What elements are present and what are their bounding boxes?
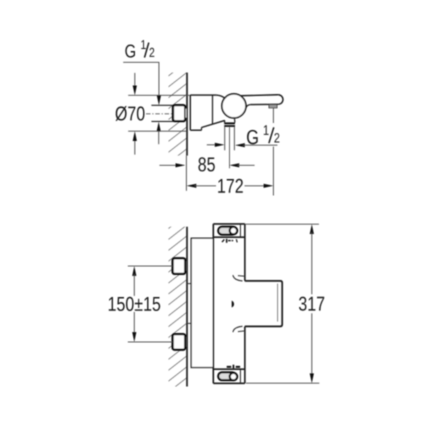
- leader line from G 1/2 to pipe: [123, 62, 159, 95]
- upper union flange: [185, 261, 187, 272]
- escutcheon / valve body (side view): [190, 95, 225, 130]
- label G 1/2 (shower outlet): [207, 125, 280, 147]
- dimension 317 extension bottom: [246, 382, 319, 384]
- union nut (side view): [173, 105, 185, 121]
- spout root fillet bottom: [233, 326, 243, 332]
- wall hatching (top view): [169, 73, 188, 156]
- top cover circle: [230, 227, 238, 235]
- spout root fillet top: [233, 275, 243, 281]
- O70 arrow up: [134, 141, 136, 155]
- pipe centerline (dash-dot): [146, 113, 189, 115]
- spout aerator nub: [269, 105, 277, 108]
- shower outlet tubes: [224, 127, 226, 150]
- wall face extension line down to dimensions: [185, 156, 187, 191]
- cover separator top: [213, 236, 245, 238]
- leader arrow down to pipe top: [157, 96, 161, 106]
- spout (plan view): [245, 281, 282, 327]
- bracket tick lower: [187, 322, 191, 324]
- dimension 150±15 extension bottom: [128, 341, 173, 343]
- second arrow up to pipe bottom: [158, 131, 160, 144]
- union centerline upper (dash-dot): [170, 265, 189, 267]
- lower union nut: [173, 334, 186, 350]
- escutcheon plate (plan view): [191, 238, 213, 367]
- volume scale marks (bottom): [227, 365, 240, 369]
- union flange at wall: [185, 108, 187, 118]
- upper union nut: [173, 258, 186, 274]
- shower outlet nut (dark bands): [224, 122, 235, 124]
- knob indicator blob: [232, 301, 234, 308]
- union centerline lower (dash-dot): [170, 341, 189, 343]
- temperature scale marks (top): [222, 239, 237, 243]
- shower outlet neck below body: [223, 121, 226, 123]
- label G 1/2 (top, wall connection): [125, 40, 154, 58]
- dimension 317 line and arrows: [299, 224, 324, 383]
- top cover pill: [218, 227, 236, 235]
- wall face line (top view): [186, 73, 188, 156]
- spout end extension line: [272, 108, 274, 123]
- dimension O70 extension line bottom: [128, 130, 186, 132]
- thermostat knob circle: [222, 94, 246, 118]
- dimension 150±15 extension top: [128, 265, 173, 267]
- O70 arrow down: [134, 73, 136, 86]
- outlet centerline extension: [229, 127, 231, 168]
- cover inner line bottom: [239, 369, 241, 383]
- dimension O70 extension line top: [128, 94, 190, 96]
- bracket tick upper: [187, 283, 191, 285]
- supply pipe (bottom edge): [151, 120, 173, 122]
- text O70: [116, 106, 145, 121]
- cover inner line top: [239, 224, 241, 237]
- dimension 317 extension top: [245, 223, 319, 225]
- bottom cover circle: [230, 373, 238, 381]
- spout inner highlight line: [277, 284, 279, 322]
- bottom cover pill: [218, 372, 236, 380]
- dimension 85: [159, 157, 254, 171]
- lower union flange: [185, 336, 187, 347]
- body outline (plan view): [213, 224, 245, 383]
- dimension 172: [187, 179, 274, 193]
- wall face line (plan view): [186, 227, 188, 387]
- cover separator bottom: [213, 368, 245, 370]
- dimension 150±15 line and arrows: [109, 266, 160, 342]
- spout (side view): [241, 95, 283, 109]
- supply pipe (top edge): [151, 104, 173, 106]
- wall hatching (plan view): [169, 227, 188, 387]
